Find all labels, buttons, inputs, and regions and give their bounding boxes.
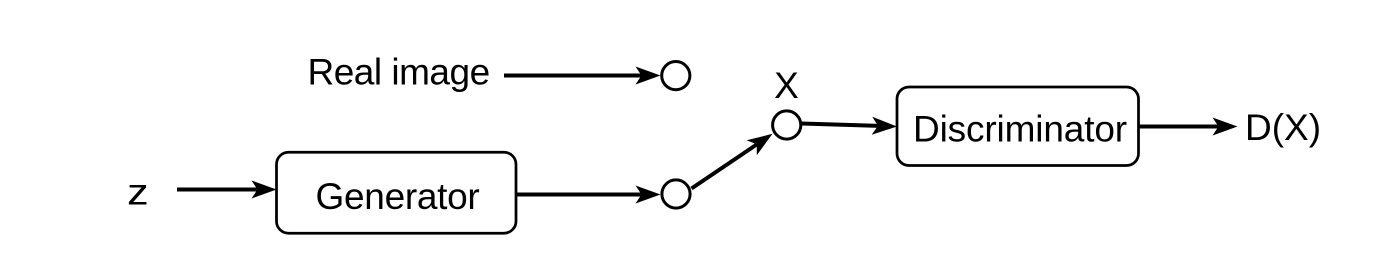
svg-text:Real image: Real image [308, 52, 490, 93]
block: Generator box [277, 152, 517, 233]
wire: Discriminator output to D(X) [1139, 125, 1220, 129]
wire: node X to Discriminator input [802, 124, 880, 126]
svg-text:X: X [774, 65, 799, 106]
wire: switch diagonal arrow to node X [692, 144, 758, 189]
svg-text:Generator: Generator [316, 176, 480, 217]
node: fake-sample terminal circle [662, 180, 690, 208]
block: Discriminator box [897, 87, 1139, 166]
svg-text:D(X): D(X) [1245, 107, 1321, 148]
wire: Generator output to switch terminal [517, 193, 643, 197]
svg-text:Discriminator: Discriminator [913, 109, 1127, 150]
node: real-sample terminal circle [662, 62, 690, 90]
node: selected-sample circle X [773, 111, 801, 139]
wire: z arrow to Generator input [177, 188, 259, 192]
wire: Real image arrow to real-sample node [504, 74, 643, 78]
svg-text:z: z [127, 172, 149, 213]
